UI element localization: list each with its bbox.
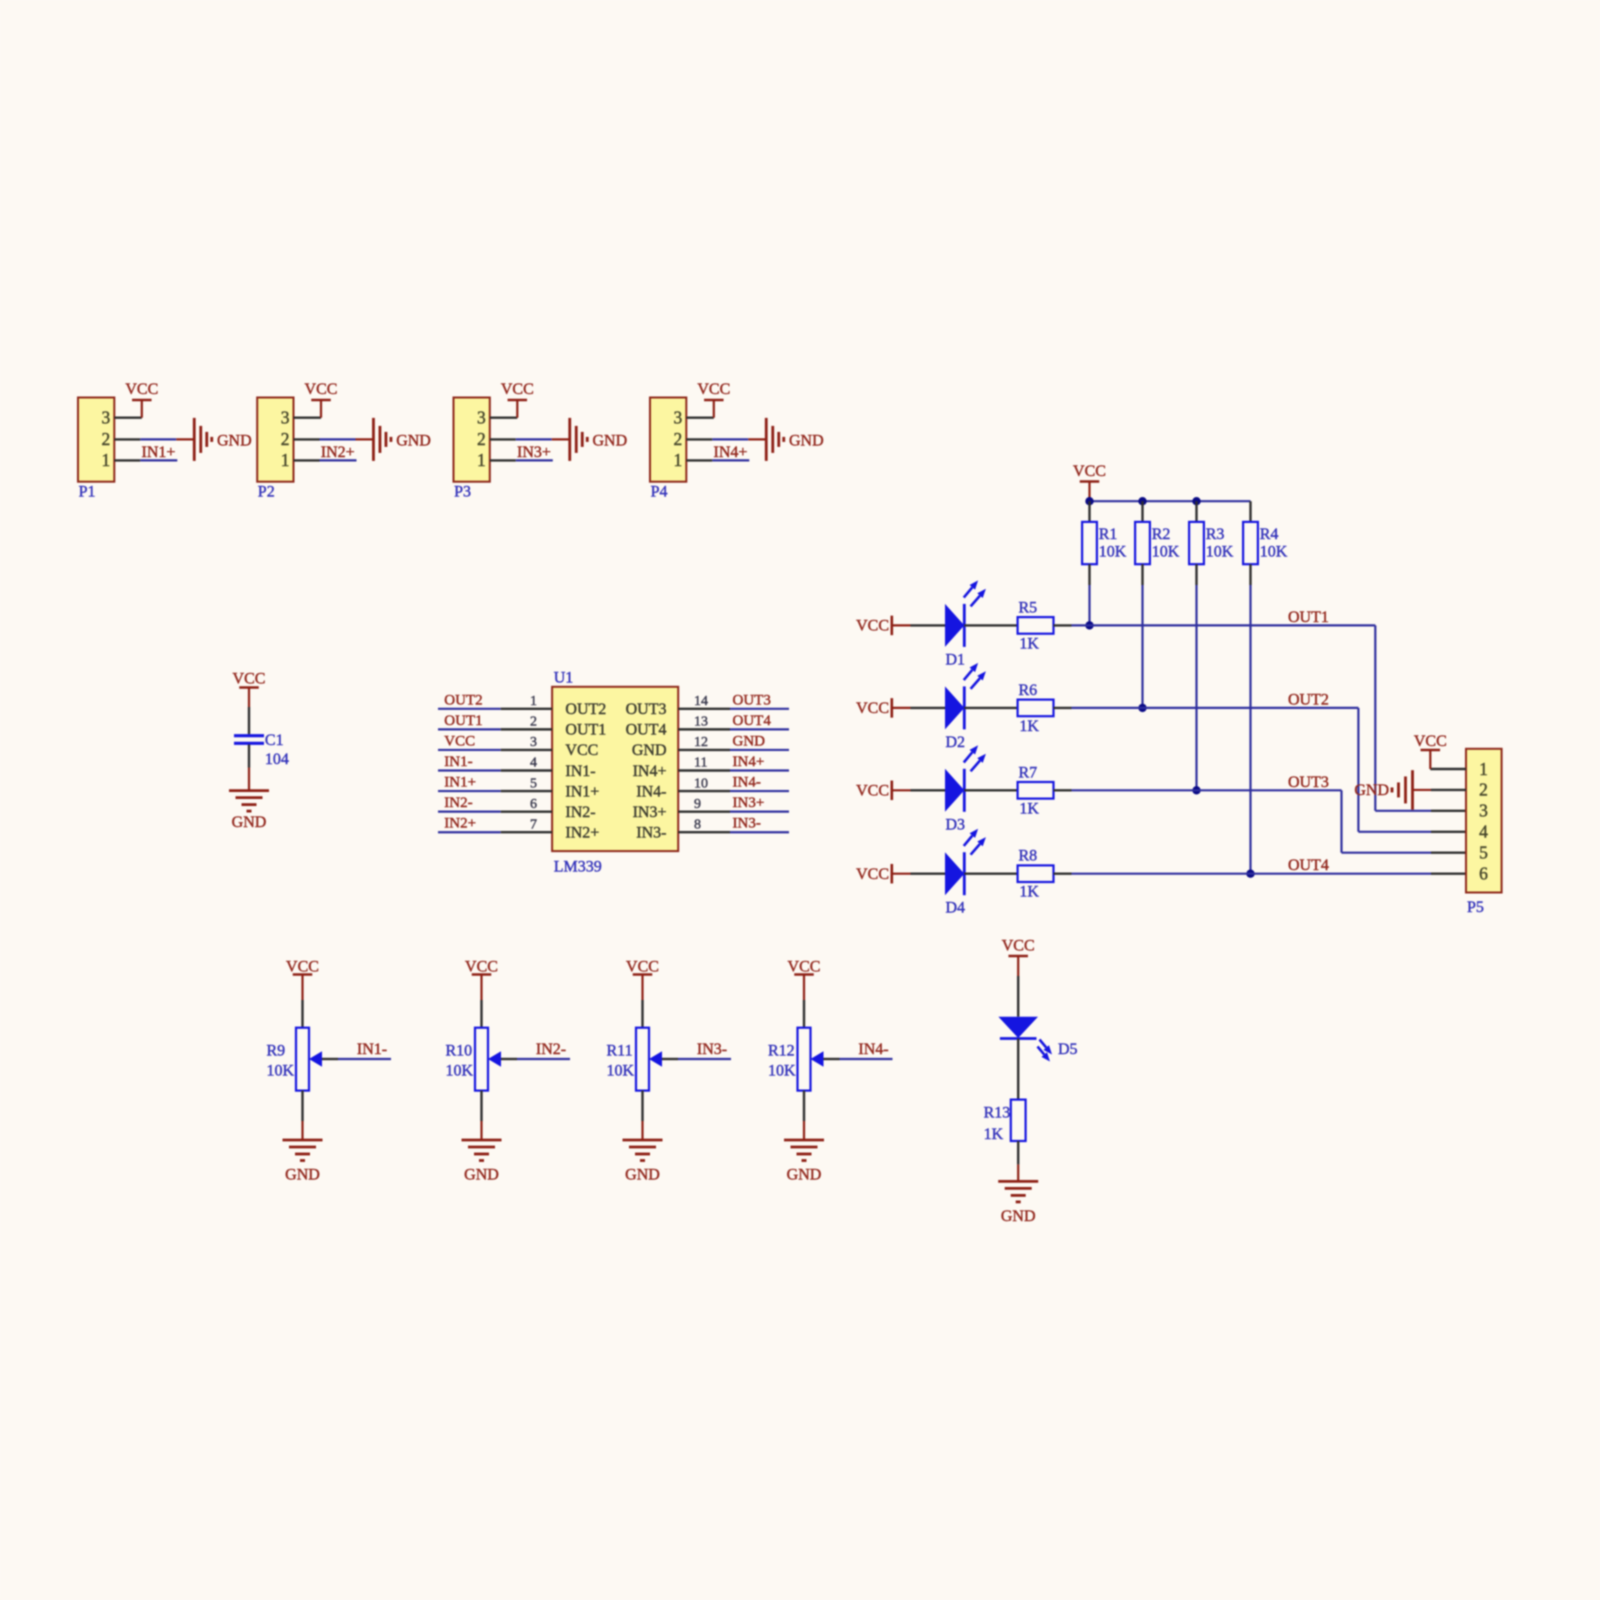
wire VCC to R9: [301, 975, 303, 1028]
svg-text:R1: R1: [1099, 526, 1118, 543]
svg-text:IN4-: IN4-: [636, 783, 666, 800]
net label OUT3: [1288, 774, 1329, 791]
wire P5 pin 1 to VCC: [1430, 750, 1466, 769]
svg-text:9: 9: [694, 797, 701, 812]
power VCC at R12: [788, 959, 821, 976]
power VCC at P5: [1414, 733, 1447, 750]
wire R7 to OUT3: [1054, 789, 1342, 791]
svg-text:12: 12: [694, 735, 708, 750]
ground GND at P1: [194, 418, 251, 461]
svg-text:10K: 10K: [446, 1062, 474, 1079]
svg-text:P4: P4: [651, 483, 668, 500]
wire R6 to OUT2: [1054, 707, 1359, 709]
net label IN4+: [714, 444, 748, 461]
ground GND at R11: [623, 1140, 663, 1184]
U1 pin 11 wire (net IN4+): [678, 769, 789, 771]
net label IN2+: [321, 444, 355, 461]
power VCC at D4: [856, 864, 910, 884]
svg-text:OUT1: OUT1: [565, 722, 606, 739]
resistor R2 10K: [1135, 501, 1180, 585]
power VCC at D5: [1002, 938, 1035, 957]
svg-text:4: 4: [530, 756, 537, 771]
connector P1: [78, 398, 114, 501]
wire P1 pin 3 to VCC: [114, 400, 142, 418]
svg-text:IN1+: IN1+: [142, 444, 176, 461]
U1 pin number 10: [694, 776, 708, 791]
U1 pin 3 wire (net VCC): [438, 749, 552, 751]
U1 pin number 1: [530, 694, 537, 709]
resistor R6 1K: [1018, 682, 1054, 735]
ground GND at C1: [229, 791, 269, 831]
wire OUT1 vertical: [1374, 625, 1376, 810]
net label IN3- (U1 right): [733, 816, 761, 832]
svg-text:VCC: VCC: [444, 733, 475, 749]
resistor R13 1K: [984, 1100, 1026, 1143]
wire OUT3 to P5 pin 5: [1342, 852, 1467, 854]
svg-text:IN1+: IN1+: [565, 783, 599, 800]
net label IN1+ (U1 left): [444, 775, 476, 791]
LED D4: [945, 829, 986, 917]
junction dot bus/R3: [1192, 497, 1200, 505]
svg-text:IN3+: IN3+: [733, 795, 765, 811]
wire P2 pin 3 to VCC: [294, 400, 322, 418]
svg-text:1: 1: [281, 450, 290, 470]
svg-text:IN2-: IN2-: [444, 795, 472, 811]
wire OUT1 to P5 pin 3: [1375, 810, 1466, 812]
svg-text:8: 8: [694, 817, 701, 832]
wire VCC bus: [1090, 500, 1251, 502]
U1 pin 12 wire (net GND): [678, 749, 789, 751]
svg-text:P3: P3: [454, 483, 471, 500]
svg-text:2: 2: [1479, 780, 1488, 800]
svg-text:GND: GND: [1001, 1208, 1036, 1225]
net label IN4- (U1 right): [733, 775, 761, 791]
svg-text:D1: D1: [946, 651, 966, 668]
svg-text:R8: R8: [1019, 848, 1038, 865]
svg-text:1K: 1K: [984, 1126, 1004, 1143]
svg-text:IN3-: IN3-: [697, 1041, 727, 1058]
resistor R4 10K: [1243, 501, 1288, 585]
power VCC at D1: [856, 616, 910, 636]
ground GND at D5: [998, 1181, 1038, 1225]
power VCC at P2: [305, 381, 338, 400]
potentiometer R10 10K: [446, 1028, 502, 1091]
wire P3 pin 2 to GND: [490, 438, 570, 440]
U1 pin 10 wire (net IN4-): [678, 790, 789, 792]
wire D1 to R5: [964, 624, 1017, 626]
svg-text:10K: 10K: [1206, 543, 1234, 560]
U1 pin number 8: [694, 817, 701, 832]
svg-text:OUT1: OUT1: [444, 713, 482, 729]
U1 pin 13 wire (net OUT4): [678, 728, 789, 730]
svg-text:GND: GND: [396, 433, 431, 450]
wire R11 to GND: [641, 1091, 643, 1140]
wire VCC to D4: [911, 873, 946, 875]
svg-text:GND: GND: [593, 433, 628, 450]
LED D3: [945, 745, 986, 833]
junction dot bus/R1: [1085, 497, 1093, 505]
wire P1 pin 2 to GND: [114, 438, 194, 440]
wire D5 to R13: [1017, 1039, 1019, 1099]
svg-text:VCC: VCC: [305, 381, 338, 398]
U1 pin number 2: [530, 715, 537, 730]
svg-text:IN3+: IN3+: [633, 804, 667, 821]
U1 pin number 14: [694, 694, 708, 709]
net label IN4+ (U1 right): [733, 754, 765, 770]
svg-text:R10: R10: [446, 1043, 473, 1060]
svg-text:GND: GND: [625, 1167, 660, 1184]
power VCC at R10: [465, 959, 498, 976]
svg-text:5: 5: [530, 776, 537, 791]
svg-text:7: 7: [530, 817, 537, 832]
svg-text:VCC: VCC: [856, 700, 889, 717]
svg-text:VCC: VCC: [1002, 938, 1035, 955]
ground GND at R12: [784, 1140, 824, 1184]
svg-text:R4: R4: [1260, 526, 1279, 543]
wire OUT2 to P5 pin 4: [1358, 831, 1466, 833]
svg-text:1: 1: [1479, 759, 1488, 779]
wire P2 pin 2 to GND: [294, 438, 374, 440]
ground GND at P4: [766, 418, 823, 461]
wire R5 to OUT1: [1054, 624, 1376, 626]
U1 pin number 11: [694, 756, 707, 771]
svg-text:R7: R7: [1019, 764, 1038, 781]
net label OUT4: [1288, 857, 1329, 874]
svg-text:VCC: VCC: [626, 959, 659, 976]
svg-text:VCC: VCC: [788, 959, 821, 976]
svg-text:2: 2: [530, 715, 537, 730]
connector P3: [454, 398, 490, 501]
svg-text:OUT2: OUT2: [444, 692, 482, 708]
resistor R8 1K: [1018, 848, 1054, 901]
svg-text:5: 5: [1479, 843, 1488, 863]
svg-text:10K: 10K: [267, 1062, 295, 1079]
wire P3 pin 3 to VCC: [490, 400, 518, 418]
junction dot R2/OUT2: [1138, 704, 1146, 712]
wire VCC to R11: [641, 975, 643, 1028]
svg-text:3: 3: [1479, 801, 1488, 821]
power VCC at R1-R4 bus: [1073, 463, 1106, 482]
U1 pin number 12: [694, 735, 708, 750]
connector P2: [257, 398, 293, 501]
power VCC at R11: [626, 959, 659, 976]
svg-text:1: 1: [102, 450, 111, 470]
wire VCC to R10: [480, 975, 482, 1028]
wire VCC to D3: [911, 789, 946, 791]
LED D2: [945, 663, 986, 751]
svg-text:VCC: VCC: [565, 742, 598, 759]
potentiometer R12 10K: [768, 1028, 824, 1091]
svg-text:VCC: VCC: [856, 783, 889, 800]
net label OUT3 (U1 right): [733, 692, 771, 708]
wire P1 pin 1 (net IN1+): [114, 459, 177, 461]
svg-text:IN4+: IN4+: [633, 763, 667, 780]
svg-text:D5: D5: [1058, 1041, 1078, 1058]
power VCC at C1: [233, 670, 266, 687]
U1 pin 2 wire (net OUT1): [438, 728, 552, 730]
net label IN2-: [536, 1041, 566, 1058]
net label IN1+: [142, 444, 176, 461]
wire R12 wiper (net IN4-): [824, 1058, 893, 1060]
svg-text:OUT3: OUT3: [1288, 774, 1329, 791]
svg-text:3: 3: [674, 408, 683, 428]
svg-text:3: 3: [102, 408, 111, 428]
U1 pin 1 wire (net OUT2): [438, 708, 552, 710]
svg-text:10: 10: [694, 776, 708, 791]
potentiometer R11 10K: [607, 1028, 663, 1091]
svg-text:IN3-: IN3-: [636, 825, 666, 842]
svg-text:OUT4: OUT4: [733, 713, 772, 729]
svg-text:R6: R6: [1019, 682, 1038, 699]
wire R2 to OUT2 row: [1141, 585, 1143, 708]
wire R9 wiper (net IN1-): [322, 1058, 391, 1060]
svg-text:GND: GND: [285, 1167, 320, 1184]
svg-text:OUT1: OUT1: [1288, 609, 1329, 626]
svg-text:1: 1: [530, 694, 537, 709]
svg-text:1K: 1K: [1019, 800, 1039, 817]
wire OUT3 vertical: [1340, 790, 1342, 852]
connector P4: [650, 398, 686, 501]
U1 pin number 6: [530, 797, 537, 812]
svg-text:P2: P2: [258, 483, 275, 500]
net label IN3-: [697, 1041, 727, 1058]
svg-text:IN1-: IN1-: [444, 754, 472, 770]
svg-text:D2: D2: [946, 734, 966, 751]
net label IN1- (U1 left): [444, 754, 472, 770]
net label IN1-: [357, 1041, 387, 1058]
svg-text:10K: 10K: [768, 1062, 796, 1079]
U1 pin 5 wire (net IN1+): [438, 790, 552, 792]
wire R9 to GND: [301, 1091, 303, 1140]
U1 pin 14 wire (net OUT3): [678, 708, 789, 710]
LED D1: [945, 580, 986, 668]
svg-text:GND: GND: [232, 814, 267, 831]
wire R1 to OUT1 row: [1088, 585, 1090, 625]
svg-text:R13: R13: [984, 1105, 1011, 1122]
svg-text:VCC: VCC: [1073, 463, 1106, 480]
wire VCC to bus: [1088, 482, 1090, 502]
svg-text:VCC: VCC: [856, 618, 889, 635]
svg-text:R12: R12: [768, 1043, 795, 1060]
svg-text:1: 1: [477, 450, 486, 470]
svg-text:3: 3: [530, 735, 537, 750]
wire R8 to OUT4: [1054, 873, 1467, 875]
wire D3 to R7: [964, 789, 1017, 791]
potentiometer R9 10K: [267, 1028, 323, 1091]
net label GND (U1 right): [733, 733, 766, 749]
wire P4 pin 3 to VCC: [686, 400, 714, 418]
svg-text:1: 1: [674, 450, 683, 470]
svg-text:10K: 10K: [1152, 543, 1180, 560]
ground GND at P2: [373, 418, 430, 461]
svg-text:R5: R5: [1019, 599, 1038, 616]
svg-text:6: 6: [1479, 864, 1488, 884]
svg-text:10K: 10K: [1099, 543, 1127, 560]
net label IN2+ (U1 left): [444, 816, 476, 832]
svg-text:D4: D4: [946, 900, 966, 917]
svg-text:1K: 1K: [1019, 884, 1039, 901]
svg-text:IN4+: IN4+: [733, 754, 765, 770]
svg-text:OUT2: OUT2: [565, 701, 606, 718]
svg-text:10K: 10K: [607, 1062, 635, 1079]
svg-text:GND: GND: [1354, 782, 1389, 799]
svg-text:R2: R2: [1152, 526, 1171, 543]
U1 pin number 3: [530, 735, 537, 750]
U1 pin number 13: [694, 715, 708, 730]
net label OUT2 (U1 left): [444, 692, 482, 708]
svg-text:4: 4: [1479, 822, 1488, 842]
wire VCC to D1: [911, 624, 946, 626]
resistor R1 10K: [1082, 501, 1127, 585]
svg-text:VCC: VCC: [125, 381, 158, 398]
svg-text:2: 2: [674, 429, 683, 449]
svg-text:LM339: LM339: [554, 859, 602, 876]
svg-text:P1: P1: [79, 483, 96, 500]
junction dot R4/OUT4: [1246, 870, 1254, 878]
svg-text:IN2-: IN2-: [536, 1041, 566, 1058]
U1 pin 8 wire (net IN3-): [678, 831, 789, 833]
power VCC at P1: [125, 381, 158, 400]
svg-text:IN3-: IN3-: [733, 816, 761, 832]
svg-text:GND: GND: [217, 433, 252, 450]
net label OUT1 (U1 left): [444, 713, 482, 729]
power VCC at P3: [501, 381, 534, 400]
U1 pin 9 wire (net IN3+): [678, 810, 789, 812]
U1 pin 7 wire (net IN2+): [438, 831, 552, 833]
wire C1 to GND: [248, 745, 250, 791]
svg-text:OUT2: OUT2: [1288, 691, 1329, 708]
svg-text:VCC: VCC: [465, 959, 498, 976]
ground GND at R9: [283, 1140, 323, 1184]
svg-text:IN2-: IN2-: [565, 804, 595, 821]
wire OUT2 vertical: [1357, 708, 1359, 832]
U1 pin number 7: [530, 817, 537, 832]
ground GND at R10: [462, 1140, 502, 1184]
wire D4 to R8: [964, 873, 1017, 875]
svg-text:3: 3: [477, 408, 486, 428]
svg-text:IN2+: IN2+: [565, 825, 599, 842]
U1 pin number 9: [694, 797, 701, 812]
wire R3 to OUT3 row: [1195, 585, 1197, 790]
ground GND at P5: [1354, 770, 1412, 810]
svg-text:VCC: VCC: [286, 959, 319, 976]
svg-text:2: 2: [102, 429, 111, 449]
U1 pin 6 wire (net IN2-): [438, 811, 552, 813]
svg-text:IN2+: IN2+: [444, 816, 476, 832]
net label IN3+ (U1 right): [733, 795, 765, 811]
wire R4 to OUT4 row: [1249, 585, 1251, 874]
wire VCC to C1: [248, 688, 250, 735]
wire P2 pin 1 (net IN2+): [294, 459, 357, 461]
wire R10 wiper (net IN2-): [501, 1058, 570, 1060]
svg-text:P5: P5: [1467, 899, 1484, 916]
svg-text:GND: GND: [789, 433, 824, 450]
U1 pin 4 wire (net IN1-): [438, 769, 552, 771]
svg-text:IN1-: IN1-: [565, 763, 595, 780]
svg-text:GND: GND: [632, 742, 667, 759]
svg-text:R9: R9: [267, 1043, 286, 1060]
net label OUT4 (U1 right): [733, 713, 772, 729]
IC U1 LM339 (quad comparator): [552, 670, 678, 876]
svg-text:104: 104: [265, 751, 289, 768]
svg-text:2: 2: [281, 429, 290, 449]
svg-text:R11: R11: [607, 1043, 633, 1060]
junction dot R1/OUT1: [1085, 621, 1093, 629]
wire VCC to D5: [1017, 956, 1019, 1017]
net label VCC (U1 left): [444, 733, 475, 749]
svg-text:VCC: VCC: [233, 670, 266, 687]
wire R13 to GND: [1017, 1141, 1019, 1181]
resistor R5 1K: [1018, 599, 1054, 652]
resistor R3 10K: [1189, 501, 1234, 585]
net label OUT1: [1288, 609, 1329, 626]
svg-text:GND: GND: [787, 1167, 822, 1184]
svg-text:IN4+: IN4+: [714, 444, 748, 461]
wire D2 to R6: [964, 707, 1017, 709]
svg-text:6: 6: [530, 797, 537, 812]
wire R12 to GND: [803, 1091, 805, 1140]
resistor R7 1K: [1018, 764, 1054, 817]
wire VCC to R12: [803, 975, 805, 1028]
connector P5: [1466, 749, 1502, 916]
svg-text:2: 2: [477, 429, 486, 449]
svg-text:VCC: VCC: [501, 381, 534, 398]
power VCC at R9: [286, 959, 319, 976]
svg-text:11: 11: [694, 756, 707, 771]
svg-text:GND: GND: [464, 1167, 499, 1184]
wire P5 pin 2 to GND: [1413, 789, 1467, 791]
svg-text:D3: D3: [946, 816, 966, 833]
svg-text:10K: 10K: [1260, 543, 1288, 560]
svg-text:IN1+: IN1+: [444, 775, 476, 791]
svg-text:VCC: VCC: [697, 381, 730, 398]
svg-text:C1: C1: [265, 732, 284, 749]
power VCC at P4: [697, 381, 730, 400]
svg-text:14: 14: [694, 694, 708, 709]
svg-text:OUT3: OUT3: [733, 692, 771, 708]
net label OUT2: [1288, 691, 1329, 708]
svg-text:IN4-: IN4-: [733, 775, 761, 791]
svg-text:R3: R3: [1206, 526, 1225, 543]
svg-text:3: 3: [281, 408, 290, 428]
U1 pin number 5: [530, 776, 537, 791]
wire P4 pin 1 (net IN4+): [686, 459, 749, 461]
svg-text:OUT4: OUT4: [1288, 857, 1329, 874]
power VCC at D3: [856, 781, 910, 801]
wire P4 pin 2 to GND: [686, 438, 766, 440]
U1 pin number 4: [530, 756, 537, 771]
LED D5: [998, 1017, 1077, 1062]
svg-text:1K: 1K: [1019, 718, 1039, 735]
svg-text:13: 13: [694, 715, 708, 730]
wire P3 pin 1 (net IN3+): [490, 459, 553, 461]
svg-text:IN3+: IN3+: [517, 444, 551, 461]
svg-text:VCC: VCC: [856, 866, 889, 883]
svg-text:U1: U1: [554, 670, 574, 687]
net label IN3+: [517, 444, 551, 461]
wire R11 wiper (net IN3-): [662, 1058, 731, 1060]
svg-text:OUT3: OUT3: [626, 701, 667, 718]
junction dot bus/R2: [1138, 497, 1146, 505]
ground GND at P3: [570, 418, 627, 461]
power VCC at D2: [856, 698, 910, 718]
svg-text:OUT4: OUT4: [626, 722, 667, 739]
capacitor C1 104: [234, 732, 289, 768]
svg-text:IN2+: IN2+: [321, 444, 355, 461]
wire VCC to D2: [911, 707, 946, 709]
junction dot R3/OUT3: [1192, 786, 1200, 794]
svg-text:1K: 1K: [1019, 635, 1039, 652]
